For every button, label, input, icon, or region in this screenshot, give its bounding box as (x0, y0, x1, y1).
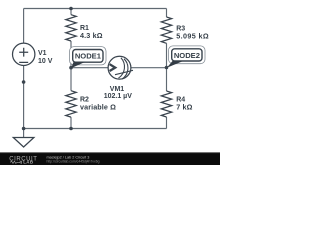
svg-text:LAB: LAB (23, 160, 33, 165)
svg-text:10 V: 10 V (38, 58, 53, 65)
svg-text:variable Ω: variable Ω (80, 103, 116, 112)
svg-text:7 kΩ: 7 kΩ (176, 103, 192, 112)
svg-text:http://circuitlab.com/c445dj4h: http://circuitlab.com/c445dj4h7vx6g (47, 160, 100, 164)
svg-text:102.1 µV: 102.1 µV (104, 93, 132, 100)
svg-text:5.095 kΩ: 5.095 kΩ (176, 31, 209, 40)
svg-text:NODE2: NODE2 (174, 51, 200, 60)
svg-text:V1: V1 (38, 50, 47, 57)
svg-text:NODE1: NODE1 (75, 52, 102, 61)
svg-text:4.3 kΩ: 4.3 kΩ (80, 31, 103, 40)
